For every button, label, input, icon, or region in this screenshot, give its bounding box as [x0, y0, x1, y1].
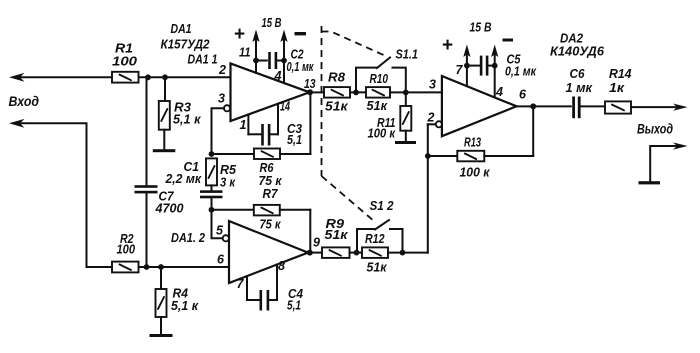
svg-text:100: 100	[112, 55, 137, 69]
node dot C2 right	[281, 58, 287, 64]
node output junction DA2	[530, 103, 536, 109]
capacitor C4 with pins 7 and 8	[237, 259, 304, 313]
op-amp U DA1.2	[216, 221, 308, 283]
svg-text:8: 8	[278, 259, 285, 273]
op-amp U DA2	[427, 63, 528, 136]
resistor R6 feedback	[212, 92, 311, 188]
resistor R4	[156, 267, 199, 335]
switch S1.2	[357, 199, 403, 253]
svg-text:R14: R14	[609, 67, 632, 81]
svg-text:5: 5	[216, 224, 224, 238]
svg-text:51к: 51к	[367, 99, 388, 113]
node junction R8-R10	[353, 90, 359, 96]
node junction B2	[158, 264, 164, 270]
capacitor C2	[256, 48, 314, 75]
svg-text:0,1 мк: 0,1 мк	[287, 60, 314, 74]
svg-text:51к: 51к	[325, 228, 349, 242]
switch S1.1	[356, 48, 418, 93]
svg-text:100 к: 100 к	[368, 127, 396, 141]
svg-text:51к: 51к	[367, 261, 388, 275]
svg-text:Вход: Вход	[9, 93, 40, 109]
ground under R4	[150, 334, 173, 337]
capacitor C6	[566, 67, 606, 118]
svg-text:R8: R8	[328, 71, 345, 85]
svg-text:1 мк: 1 мк	[566, 81, 593, 95]
node junction A1	[145, 74, 151, 80]
svg-text:15 В: 15 В	[470, 21, 492, 35]
wire C7 branch vertical	[146, 77, 148, 186]
ground under R3	[153, 149, 176, 152]
svg-text:R6: R6	[260, 161, 275, 175]
svg-text:+: +	[442, 35, 453, 56]
resistor R1	[112, 42, 139, 83]
resistor R3	[159, 77, 201, 149]
wire pin2 DA2	[428, 123, 436, 125]
svg-text:DA1. 2: DA1. 2	[171, 231, 205, 245]
resistor R14	[605, 67, 632, 114]
resistor R12	[362, 232, 428, 275]
label minus DA1	[295, 32, 307, 35]
node junction R10-R11	[403, 90, 409, 96]
svg-text:4: 4	[495, 85, 503, 99]
svg-text:Выход: Выход	[637, 121, 673, 137]
resistor R9	[310, 217, 362, 258]
svg-text:7: 7	[237, 277, 245, 291]
resistor R5	[206, 151, 237, 189]
svg-text:R10: R10	[370, 72, 389, 86]
svg-text:3 к: 3 к	[220, 176, 236, 190]
svg-text:S1 2: S1 2	[370, 199, 394, 213]
svg-text:7: 7	[456, 63, 464, 77]
resistor R8	[310, 71, 366, 114]
node junction A2	[162, 74, 168, 80]
ground under output2	[639, 181, 661, 184]
node junction C1 bottom	[209, 207, 215, 213]
svg-text:S1.1: S1.1	[396, 48, 419, 62]
svg-text:R12: R12	[365, 232, 385, 246]
svg-text:R7: R7	[263, 187, 279, 201]
wire input1 to R1	[9, 73, 112, 82]
pin 11 power arrow	[239, 30, 260, 73]
svg-text:15 В: 15 В	[262, 16, 282, 30]
wire C7 to R2 line	[146, 193, 148, 267]
svg-text:5,1 к: 5,1 к	[171, 299, 199, 313]
resistor R10	[366, 72, 442, 113]
dashed link S1 vertical	[321, 26, 323, 176]
wire DA2 output	[517, 105, 571, 107]
svg-text:R13: R13	[464, 136, 481, 150]
node junction R13	[425, 153, 431, 159]
svg-text:6: 6	[519, 88, 527, 102]
wire R1 to pin2 of DA1.1	[139, 76, 231, 78]
wire R2 to pin6 of DA1.2	[139, 266, 230, 268]
svg-text:5,1: 5,1	[287, 299, 301, 313]
wire up to R13 node	[427, 124, 429, 252]
svg-text:1: 1	[240, 118, 247, 132]
svg-text:3: 3	[218, 92, 225, 106]
svg-text:3: 3	[429, 78, 436, 92]
resistor R11	[368, 92, 412, 141]
svg-text:100: 100	[117, 242, 136, 256]
svg-text:6: 6	[217, 253, 225, 267]
svg-text:0,1 мк: 0,1 мк	[505, 65, 537, 79]
node junction R12 right	[400, 250, 406, 256]
node junction R9-R12	[354, 250, 360, 256]
svg-text:С6: С6	[570, 67, 586, 81]
capacitor C3 with pins 1 and 14	[240, 100, 303, 148]
wire to pin 5 DA1.2	[212, 210, 223, 239]
wire output arrow	[631, 104, 688, 111]
op-amp U DA1.1	[218, 63, 310, 121]
svg-text:75 к: 75 к	[259, 174, 283, 188]
node dot C2 left	[253, 58, 259, 64]
svg-text:DA1: DA1	[171, 22, 192, 36]
node output junction DA1.2 pin9	[307, 250, 313, 256]
pin 5 circle of DA1.2	[223, 235, 229, 241]
capacitor C5	[467, 53, 537, 79]
svg-text:DA1 1: DA1 1	[188, 53, 218, 67]
pin 3 circle of DA1.1	[224, 105, 230, 111]
pin 4 power arrow DA2	[491, 45, 498, 98]
pin 4 power arrow DA1	[274, 30, 288, 84]
svg-text:14: 14	[280, 100, 290, 114]
svg-text:R1: R1	[115, 42, 133, 56]
svg-text:5,1: 5,1	[287, 133, 302, 147]
svg-text:DA2: DA2	[560, 32, 583, 46]
label minus DA2	[503, 39, 514, 42]
ground under R11	[395, 141, 416, 144]
wire pin3 DA1.1 down	[212, 108, 224, 154]
svg-text:75 к: 75 к	[260, 218, 282, 232]
svg-text:11: 11	[239, 46, 251, 60]
svg-text:4: 4	[274, 69, 282, 83]
pin 7 power arrow DA2	[463, 45, 470, 87]
svg-text:2,2 мк: 2,2 мк	[165, 172, 202, 186]
resistor R2	[112, 232, 139, 272]
node output junction DA1.1 pin13	[307, 89, 313, 95]
svg-text:13: 13	[304, 77, 316, 91]
svg-text:5,1 к: 5,1 к	[173, 113, 201, 127]
svg-text:2: 2	[218, 63, 226, 77]
resistor R7 feedback DA1.2	[212, 187, 311, 253]
svg-text:2: 2	[427, 111, 435, 125]
capacitor C7	[135, 185, 184, 215]
svg-text:9: 9	[313, 236, 320, 250]
wire input2 with bend	[9, 119, 112, 267]
svg-text:51к: 51к	[325, 100, 348, 114]
svg-text:4700: 4700	[154, 202, 183, 216]
svg-text:К157УД2: К157УД2	[161, 38, 210, 52]
svg-text:1к: 1к	[609, 81, 625, 95]
svg-text:+: +	[234, 24, 245, 45]
svg-text:100 к: 100 к	[460, 166, 491, 180]
node dot C5 right	[492, 63, 498, 69]
node junction B1	[144, 264, 150, 270]
capacitor C1	[165, 160, 223, 210]
resistor R13	[428, 106, 533, 179]
node dot C5 left	[464, 63, 470, 69]
pin 2 circle of DA2	[436, 121, 442, 127]
wire output2 arrow with ground	[650, 142, 687, 181]
dashed link S1 bottom	[322, 176, 376, 222]
svg-text:К140УД6: К140УД6	[550, 45, 605, 59]
dashed link S1 top	[322, 32, 389, 58]
